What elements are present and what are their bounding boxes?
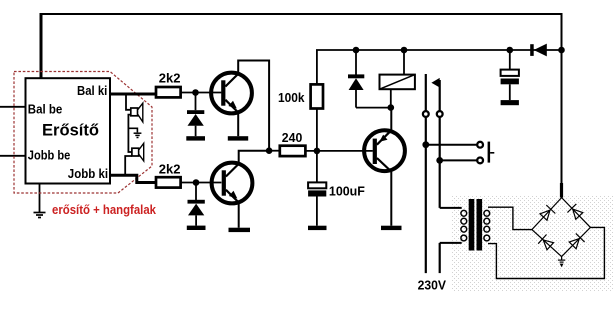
- ground at bridge bottom: [558, 257, 565, 268]
- node rail2 right vertical: [558, 47, 565, 54]
- speaker 2: [132, 143, 144, 161]
- wire Q2 emitter to ground: [238, 202, 240, 228]
- wire Q2 collector to node: [239, 151, 269, 164]
- node pushbutton left: [422, 141, 429, 148]
- relay contact left: [423, 111, 429, 117]
- wire Q1 emitter to ground: [237, 112, 239, 136]
- svg-text:Bal ki: Bal ki: [77, 83, 107, 98]
- transistor Q3: [364, 130, 405, 171]
- resistor R4 100k: [311, 84, 323, 108]
- svg-text:erősítő + hangfalak: erősítő + hangfalak: [52, 203, 156, 217]
- speaker 1: [131, 103, 143, 122]
- wire secondary top to bridge: [488, 207, 532, 229]
- transistor Q2: [212, 163, 253, 204]
- wire node to R3: [269, 150, 280, 152]
- ground of Q3: [381, 226, 402, 230]
- ground below amplifier: [34, 184, 46, 218]
- wire 100k up to supply rail 2: [317, 50, 562, 84]
- bridge diode top-left: [540, 205, 555, 220]
- relay coil K1: [380, 50, 415, 108]
- wire to center ground: [128, 128, 137, 132]
- wire mains right return: [439, 243, 441, 273]
- node junction R1/D1/Q1: [192, 89, 199, 96]
- node collectors join: [266, 147, 273, 154]
- wire Q1 collector loop: [238, 61, 269, 151]
- node junction R2/D2/Q2: [193, 179, 200, 186]
- ground of Q1: [228, 136, 248, 140]
- node relay/D3/Q3: [388, 104, 395, 111]
- wire speaker chain: [128, 115, 132, 152]
- ground of Q2: [229, 228, 251, 232]
- wire secondary bottom to bridge: [488, 227, 604, 278]
- resistor R1 2k2: [156, 87, 181, 97]
- wire R1 to Q1 base: [181, 92, 222, 94]
- label 240: [282, 130, 303, 145]
- label 100k: [278, 90, 305, 105]
- ground between speakers: [134, 133, 142, 137]
- wire right vertical thick near bridge: [560, 183, 563, 198]
- ground of D1: [186, 136, 205, 140]
- node rail2 diode D3: [353, 47, 360, 54]
- transformer TR1: [440, 199, 490, 251]
- transistor Q1: [211, 73, 252, 114]
- label 2k2 (R1): [159, 70, 181, 85]
- capacitor C2: [501, 50, 519, 100]
- bridge diode top-right: [567, 204, 582, 219]
- wire Jobb be input: [0, 155, 26, 157]
- bridge diode bottom-right: [569, 233, 584, 248]
- label 230V: [418, 278, 447, 292]
- label erősítő + hangfalak: [52, 203, 156, 217]
- node base/100k/100uF: [314, 148, 321, 155]
- wire Bal be input: [0, 106, 26, 108]
- capacitor C1 100uF: [308, 151, 326, 226]
- wire Q3 to ground: [390, 171, 392, 226]
- svg-text:100k: 100k: [278, 90, 305, 105]
- dithered background of pasted transformer/bridge image: [452, 195, 613, 292]
- resistor R2 2k2: [156, 177, 181, 187]
- ground of C2: [501, 100, 519, 105]
- relay contact right: [437, 111, 443, 117]
- wire R3 to Q3 base: [305, 150, 372, 152]
- svg-text:2k2: 2k2: [159, 162, 181, 177]
- wire mains right lower: [439, 117, 441, 208]
- wire to speaker 1: [126, 94, 131, 110]
- resistor R3 240: [280, 146, 306, 156]
- red dashed outline amplifier + speakers: [14, 72, 152, 194]
- ground of C1: [308, 226, 327, 230]
- wire D3 to relay/Q3 node: [356, 107, 391, 109]
- label 2k2 (R2): [159, 162, 181, 177]
- svg-text:Jobb be: Jobb be: [28, 148, 71, 163]
- node rail2 relay: [401, 47, 408, 54]
- wire Bal ki output (thick): [110, 93, 156, 96]
- svg-text:100uF: 100uF: [329, 183, 365, 198]
- ground of D2: [187, 226, 206, 230]
- wire node to Q3: [390, 108, 392, 131]
- diode D3 flyback: [348, 50, 364, 108]
- wire speaker 2 to Jobb ki: [125, 156, 132, 175]
- mains line right upper: [439, 80, 441, 111]
- diode D2: [188, 183, 205, 226]
- label 100uF: [329, 183, 365, 198]
- diode D4: [530, 44, 547, 57]
- svg-text:230V: 230V: [418, 278, 447, 292]
- node pushbutton right: [436, 157, 443, 164]
- diode D1: [187, 93, 204, 137]
- amplifier box Erősítő: [26, 78, 111, 183]
- wire mains left lower: [425, 117, 427, 273]
- arrow relay actuator: [431, 78, 439, 88]
- svg-text:Bal be: Bal be: [28, 102, 63, 117]
- svg-text:Erősítő: Erősítő: [42, 121, 99, 140]
- wire from top rail down to amplifier: [40, 13, 43, 78]
- wire R2 to Q2 base: [181, 182, 222, 184]
- bridge diode bottom-left: [538, 235, 553, 250]
- wire Jobb ki output (thick): [110, 175, 156, 182]
- svg-text:2k2: 2k2: [159, 70, 181, 85]
- bridge rectifier: [532, 198, 591, 257]
- pushbutton S1: [477, 142, 494, 164]
- wire to pushbutton bottom: [440, 159, 478, 161]
- svg-text:Jobb ki: Jobb ki: [68, 166, 108, 181]
- wire 100k to node: [316, 109, 318, 151]
- wire to pushbutton top: [426, 144, 477, 146]
- svg-text:240: 240: [282, 130, 303, 145]
- node rail2 capacitor C2: [507, 47, 514, 54]
- wire top supply rail: [40, 14, 562, 198]
- mains line left: [425, 74, 427, 111]
